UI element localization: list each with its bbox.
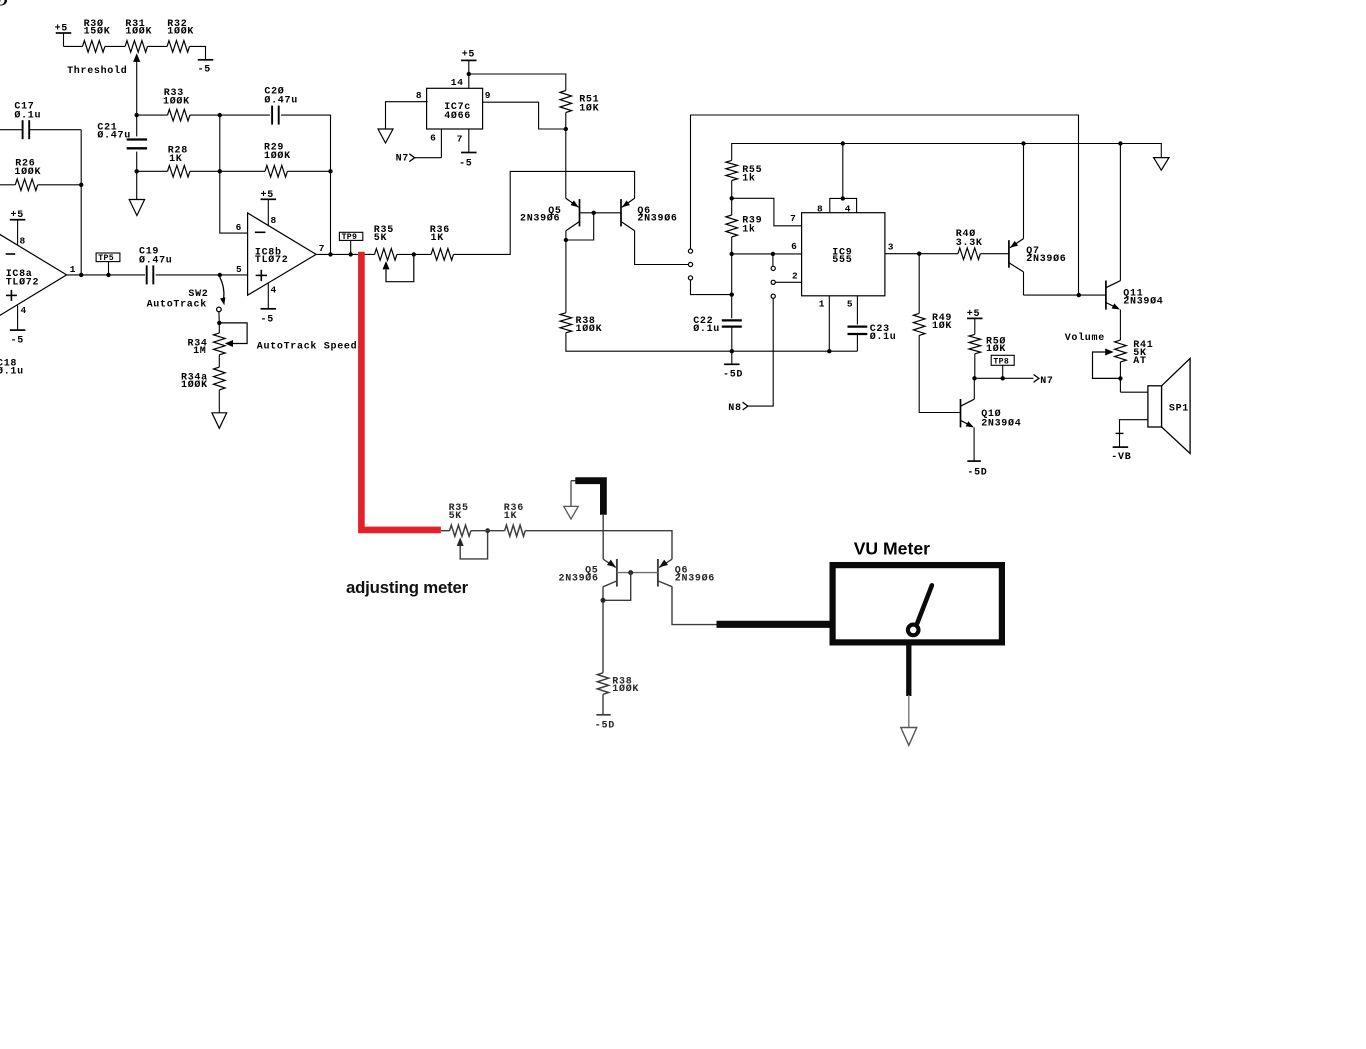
wire [732, 198, 802, 226]
resistor R38 100K (meter fragment) [597, 673, 639, 695]
power +5 (IC8a pin 8) [10, 210, 26, 245]
svg-text:N7: N7 [1040, 376, 1053, 387]
svg-text:8: 8 [271, 215, 277, 226]
resistor R40 3.3K [956, 228, 983, 259]
svg-text:N8: N8 [728, 403, 741, 414]
wire [842, 144, 844, 199]
junction [1021, 141, 1025, 145]
wire [856, 334, 858, 351]
power +5 (IC8b pin 8) [261, 190, 277, 226]
wire [469, 74, 566, 91]
svg-text:1ØØK: 1ØØK [576, 323, 603, 335]
wire [190, 170, 265, 172]
svg-text:3: 3 [888, 242, 894, 253]
connector point [771, 280, 775, 284]
transistor Q5 2N3906 [520, 198, 580, 231]
svg-text:1ØK: 1ØK [932, 320, 952, 332]
ground [564, 481, 579, 519]
svg-text:D: D [0, 0, 8, 10]
svg-text:2N39Ø6: 2N39Ø6 [520, 213, 560, 225]
wire [1119, 144, 1121, 281]
svg-text:555: 555 [832, 255, 852, 266]
junction [601, 598, 606, 603]
op-amp IC8b TL072 [248, 213, 317, 296]
wire [566, 333, 858, 351]
wire thick (to VU meter) [717, 621, 831, 628]
junction [328, 169, 332, 173]
svg-text:5K: 5K [374, 233, 387, 244]
ground [129, 171, 144, 215]
wire [918, 254, 920, 314]
wire [580, 212, 622, 214]
svg-text:1k: 1k [742, 224, 755, 236]
svg-text:Volume: Volume [1065, 332, 1105, 344]
wire [1023, 272, 1025, 295]
svg-text:3.3K: 3.3K [956, 238, 983, 249]
wire [190, 114, 220, 116]
svg-text:15ØK: 15ØK [84, 26, 111, 38]
wire [731, 181, 733, 199]
wire [731, 237, 733, 254]
svg-text:Ø.1u: Ø.1u [693, 323, 720, 335]
svg-text:-5: -5 [261, 315, 274, 326]
junction [218, 169, 222, 173]
junction [628, 570, 633, 575]
svg-text:1ØØK: 1ØØK [181, 379, 208, 391]
svg-text:5: 5 [236, 264, 242, 275]
transistor Q7 2N3906 [1009, 239, 1067, 272]
resistor R30 150K [83, 18, 111, 52]
svg-text:2: 2 [792, 270, 798, 281]
transistor Q11 2N3904 [1106, 281, 1164, 310]
junction [592, 211, 596, 215]
wire [397, 253, 431, 255]
wire [1120, 391, 1148, 393]
junction [412, 252, 416, 256]
svg-text:AutoTrack: AutoTrack [147, 298, 207, 310]
resistor R41 5K AT (pot) [1115, 340, 1154, 367]
capacitor C21 0.47u [97, 122, 147, 148]
power -VB [1111, 433, 1131, 463]
resistor R38 100K [560, 313, 602, 335]
wire [772, 254, 774, 266]
resistor R29 100K [264, 143, 291, 177]
resistor R31 100K (Threshold pot) [125, 19, 152, 52]
wire [316, 253, 374, 255]
wire [885, 253, 958, 255]
ground [212, 390, 227, 428]
svg-text:2N39Ø4: 2N39Ø4 [1123, 296, 1163, 308]
junction [827, 349, 831, 353]
junction [730, 196, 734, 200]
transistor Q6 2N3906 [621, 198, 678, 231]
resistor R33 100K [163, 88, 190, 121]
svg-text:1ØØK: 1ØØK [167, 26, 194, 38]
resistor R36 1K (meter fragment) [504, 503, 525, 536]
svg-text:5: 5 [847, 298, 853, 309]
svg-text:2N39Ø4: 2N39Ø4 [981, 417, 1021, 429]
wire [565, 113, 567, 199]
power -5 (IC7c pin 7) [459, 129, 476, 170]
connector point [771, 294, 775, 298]
wire [220, 115, 248, 233]
node N7 (output) [975, 375, 1054, 387]
svg-text:N7: N7 [396, 154, 409, 165]
svg-text:SP1: SP1 [1169, 404, 1189, 415]
svg-text:2N39Ø6: 2N39Ø6 [675, 573, 715, 585]
wire [441, 530, 450, 532]
capacitor C18 0.1u (label) [0, 359, 24, 378]
IC IC9 555 [790, 203, 894, 309]
wire thick (meter + lead) [571, 480, 578, 482]
wire [775, 281, 801, 283]
wire [148, 45, 168, 47]
svg-text:5K: 5K [449, 511, 462, 522]
switch SW2 AutoTrack [147, 277, 226, 323]
svg-text:Ø.47u: Ø.47u [264, 95, 298, 107]
power -5D [723, 351, 743, 380]
svg-text:VU Meter: VU Meter [854, 539, 930, 559]
svg-text:Ø.47u: Ø.47u [97, 129, 131, 141]
junction [730, 252, 734, 256]
wire [190, 46, 206, 59]
power -5 [198, 60, 214, 76]
wire [732, 253, 802, 255]
wire [471, 530, 505, 532]
pot wiper loop R35 [383, 254, 414, 281]
wire [602, 515, 604, 559]
junction [135, 113, 139, 117]
wire [218, 355, 220, 367]
resistor R34 1M (pot) [188, 323, 226, 357]
svg-text:AutoTrack Speed: AutoTrack Speed [257, 340, 358, 352]
svg-text:6: 6 [430, 133, 436, 144]
resistor R55 1k [726, 160, 762, 184]
svg-text:8: 8 [20, 236, 26, 247]
capacitor C23 0.1u [848, 324, 897, 343]
transistor Q10 2N3904 [961, 399, 1022, 429]
svg-text:9: 9 [485, 90, 491, 101]
svg-text:adjusting meter: adjusting meter [346, 578, 469, 597]
junction [467, 72, 471, 76]
wire [287, 170, 330, 172]
junction [79, 273, 83, 277]
wire [137, 170, 168, 172]
junction [485, 528, 490, 533]
svg-text:6: 6 [791, 241, 797, 252]
junction [771, 252, 775, 256]
junction [218, 113, 222, 117]
wire [156, 274, 248, 276]
junction [1118, 141, 1122, 145]
power -5D (Q10 emitter) [967, 427, 987, 478]
wire [566, 213, 594, 240]
ground [901, 695, 917, 745]
wire [1119, 362, 1121, 392]
capacitor C20 0.47u [264, 86, 298, 125]
svg-text:-5D: -5D [967, 467, 987, 478]
annotation red trace wire [361, 252, 441, 530]
wire [281, 115, 330, 171]
svg-text:1k: 1k [742, 173, 755, 185]
connector point [688, 262, 692, 266]
wire [330, 171, 332, 254]
resistor R35 5K (pot) [374, 225, 397, 260]
svg-text:2N39Ø6: 2N39Ø6 [559, 573, 599, 585]
wire [830, 198, 857, 212]
svg-text:-5: -5 [11, 335, 24, 346]
test point TP5 [96, 253, 120, 275]
svg-text:-5: -5 [198, 64, 211, 75]
junction [564, 238, 568, 242]
power +5 [55, 24, 72, 47]
svg-text:1K: 1K [169, 154, 182, 165]
wire [602, 587, 604, 673]
svg-text:1K: 1K [504, 511, 517, 522]
junction [917, 252, 921, 256]
resistor R50 10K [969, 334, 1006, 355]
wire [1120, 420, 1148, 447]
svg-text:-5: -5 [459, 159, 472, 170]
svg-text:Ø.1u: Ø.1u [0, 365, 24, 377]
capacitor C22 0.1u [693, 316, 742, 335]
wire [1119, 310, 1121, 341]
transistor Q5 2N3906 (meter fragment) [559, 559, 617, 587]
svg-text:TLØ72: TLØ72 [255, 254, 289, 266]
svg-text:-5D: -5D [723, 370, 743, 381]
svg-text:1ØØK: 1ØØK [125, 26, 152, 38]
wire [919, 335, 960, 412]
test point TP8 [991, 355, 1014, 378]
wire [980, 253, 1009, 255]
transistor Q6 2N3906 (meter fragment) [658, 559, 715, 587]
junction [218, 273, 222, 277]
junction [841, 196, 845, 200]
wire [64, 45, 83, 47]
ground [378, 129, 393, 143]
wire [856, 296, 858, 325]
node N7 (IC7c pin 6) [396, 129, 442, 165]
junction [1118, 376, 1122, 380]
connector point [688, 276, 692, 280]
test point TP9 [339, 232, 362, 254]
svg-text:1M: 1M [193, 346, 206, 357]
svg-text:8: 8 [817, 203, 823, 214]
wire [732, 144, 1162, 161]
power -5 (IC8a pin 4) [10, 306, 26, 347]
resistor R34a 100K [181, 367, 225, 391]
wire [731, 327, 733, 352]
resistor R35 5K (pot, meter fragment) [449, 503, 471, 536]
svg-text:8: 8 [416, 90, 422, 101]
wire [0, 184, 15, 186]
VU meter box [833, 565, 1002, 642]
svg-text:6: 6 [236, 222, 242, 233]
svg-text:2N39Ø6: 2N39Ø6 [637, 213, 677, 225]
junction [564, 127, 568, 131]
capacitor C19 0.47u [139, 247, 173, 285]
junction [730, 292, 734, 296]
svg-text:TLØ72: TLØ72 [6, 276, 40, 288]
wire [635, 231, 689, 265]
wire [386, 102, 428, 129]
capacitor C17 0.1u [14, 102, 41, 140]
pot wiper loop R35 (meter fragment) [457, 531, 488, 559]
svg-text:1: 1 [70, 264, 76, 275]
power -5D (meter fragment) [595, 694, 615, 731]
power +5 (IC7c pin 14) [461, 50, 477, 89]
svg-text:AT: AT [1133, 356, 1146, 367]
wire [483, 102, 566, 129]
junction [79, 183, 83, 187]
wire [1023, 144, 1025, 239]
wire [80, 130, 82, 275]
svg-text:2N39Ø6: 2N39Ø6 [1026, 253, 1066, 265]
wire [672, 587, 719, 625]
wire [617, 572, 658, 574]
junction [1077, 293, 1081, 297]
resistor R39 1k [726, 198, 762, 237]
wire [525, 531, 672, 560]
resistor R51 10K [560, 91, 599, 115]
wire [1024, 294, 1106, 296]
svg-text:1K: 1K [431, 233, 444, 244]
svg-text:4: 4 [21, 305, 27, 316]
wire [67, 274, 145, 276]
wire [603, 573, 631, 601]
wire [137, 114, 168, 116]
svg-text:SW2: SW2 [188, 289, 208, 300]
pot wiper arrow R31 [133, 53, 140, 115]
wire [731, 254, 733, 318]
speaker SP1 [1148, 358, 1190, 453]
resistor R26 100K [14, 158, 41, 190]
pot wiper loop R34 [219, 323, 247, 347]
wire [136, 152, 138, 172]
wire [973, 378, 975, 399]
connector point [688, 249, 692, 253]
svg-text:4: 4 [271, 285, 277, 296]
VU meter needle [908, 585, 932, 635]
svg-text:1ØK: 1ØK [986, 343, 1006, 355]
wire [454, 171, 635, 254]
svg-text:Threshold: Threshold [67, 65, 127, 77]
svg-text:4Ø66: 4Ø66 [444, 110, 471, 122]
junction [217, 321, 221, 325]
svg-text:7: 7 [319, 243, 325, 254]
ground [1154, 158, 1169, 171]
svg-text:-VB: -VB [1111, 452, 1131, 463]
wire [974, 354, 976, 379]
power +5 (R50) [967, 309, 983, 334]
wire [565, 231, 567, 313]
svg-text:7: 7 [457, 134, 463, 145]
wire [136, 115, 138, 136]
resistor R49 10K [913, 313, 952, 335]
svg-text:1ØØK: 1ØØK [163, 95, 190, 107]
svg-text:TP9: TP9 [342, 233, 358, 242]
svg-text:Ø.1u: Ø.1u [870, 331, 897, 343]
junction [730, 349, 734, 353]
wire thick (VU meter to ground) [906, 645, 911, 696]
node N8 [728, 298, 773, 414]
svg-text:TP5: TP5 [98, 254, 114, 263]
resistor R32 100K [167, 19, 194, 52]
wire [105, 45, 125, 47]
svg-text:-5D: -5D [595, 721, 615, 732]
svg-text:14: 14 [451, 77, 464, 88]
IC IC7c 4066 [416, 77, 491, 145]
svg-text:7: 7 [790, 213, 796, 224]
wire [691, 280, 732, 295]
wire [0, 129, 23, 131]
svg-text:1ØØK: 1ØØK [14, 166, 41, 178]
svg-text:Ø.47u: Ø.47u [139, 254, 173, 266]
pot wiper loop R41 [1093, 349, 1121, 379]
svg-text:1ØK: 1ØK [579, 102, 599, 114]
op-amp IC8a TL072 [0, 233, 67, 316]
connector point [771, 266, 775, 270]
svg-text:1ØØK: 1ØØK [264, 150, 291, 162]
resistor R28 1K [168, 146, 190, 178]
svg-text:1: 1 [819, 298, 825, 309]
wire [828, 296, 830, 351]
svg-text:TP8: TP8 [993, 358, 1009, 367]
svg-text:+5: +5 [462, 50, 475, 61]
svg-text:1ØØK: 1ØØK [612, 683, 639, 695]
svg-text:4: 4 [845, 203, 851, 214]
junction [328, 252, 332, 256]
power -5 (IC8b pin 4) [261, 283, 277, 326]
junction [972, 376, 976, 380]
wire [691, 115, 1079, 295]
svg-text:Ø.1u: Ø.1u [14, 109, 41, 121]
resistor R36 1K [430, 225, 454, 260]
